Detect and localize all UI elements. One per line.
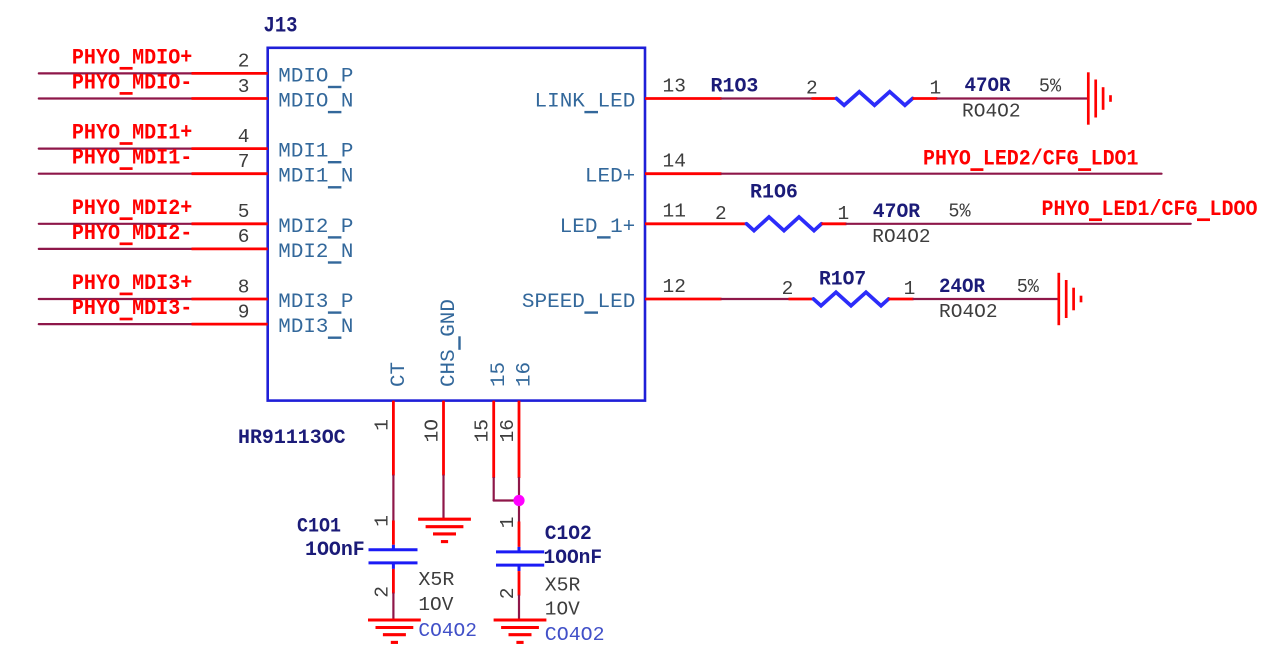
- svg-text:PHYO LED1/CFG LDOO: PHYO LED1/CFG LDOO: [1042, 197, 1258, 222]
- svg-text:1OV: 1OV: [545, 599, 580, 621]
- svg-text:1: 1: [929, 78, 941, 100]
- svg-text:24OR: 24OR: [939, 276, 986, 299]
- svg-text:PHYO MDIO+: PHYO MDIO+: [72, 45, 192, 70]
- svg-text:PHYO MDI2-: PHYO MDI2-: [72, 221, 192, 246]
- svg-text:2: 2: [497, 588, 519, 600]
- svg-text:7: 7: [238, 151, 250, 173]
- svg-text:PHYO MDI2+: PHYO MDI2+: [72, 196, 192, 221]
- svg-text:1: 1: [497, 517, 519, 529]
- svg-text:C1O1: C1O1: [297, 516, 341, 539]
- svg-text:15: 15: [472, 419, 494, 442]
- svg-text:1O: 1O: [422, 419, 444, 442]
- svg-text:47OR: 47OR: [965, 75, 1012, 98]
- svg-text:CT: CT: [388, 362, 411, 387]
- svg-text:4: 4: [238, 126, 250, 148]
- svg-text:3: 3: [238, 76, 250, 98]
- svg-text:MDI1 N: MDI1 N: [278, 166, 353, 189]
- svg-text:X5R: X5R: [545, 574, 581, 596]
- svg-text:2: 2: [715, 203, 727, 225]
- svg-text:CO4O2: CO4O2: [545, 624, 605, 646]
- svg-text:6: 6: [238, 226, 250, 248]
- svg-text:RO4O2: RO4O2: [939, 301, 998, 323]
- svg-text:SPEED LED: SPEED LED: [522, 291, 635, 314]
- svg-text:13: 13: [663, 75, 686, 97]
- svg-text:R1O7: R1O7: [819, 269, 866, 292]
- svg-text:9: 9: [238, 301, 250, 323]
- svg-text:5%: 5%: [1017, 276, 1039, 298]
- svg-text:LED+: LED+: [585, 166, 635, 189]
- svg-text:MDI1 P: MDI1 P: [278, 141, 353, 164]
- svg-text:1: 1: [371, 419, 393, 431]
- svg-text:14: 14: [663, 151, 686, 173]
- svg-text:PHYO MDI3+: PHYO MDI3+: [72, 271, 192, 296]
- svg-text:11: 11: [663, 201, 686, 223]
- svg-text:2: 2: [371, 586, 393, 598]
- svg-text:MDI2 N: MDI2 N: [278, 241, 353, 264]
- svg-text:X5R: X5R: [418, 569, 454, 591]
- svg-text:12: 12: [663, 276, 686, 298]
- svg-text:RO4O2: RO4O2: [872, 226, 930, 248]
- svg-text:8: 8: [238, 276, 250, 298]
- svg-text:MDI3 P: MDI3 P: [278, 291, 353, 314]
- svg-text:LED 1+: LED 1+: [560, 216, 636, 239]
- svg-text:R1O3: R1O3: [711, 75, 759, 98]
- svg-text:R1O6: R1O6: [750, 182, 798, 205]
- svg-text:MDI3 N: MDI3 N: [278, 316, 353, 339]
- svg-text:2: 2: [806, 78, 818, 100]
- svg-text:1OOnF: 1OOnF: [305, 539, 365, 562]
- svg-text:5%: 5%: [948, 201, 970, 223]
- svg-text:16: 16: [513, 362, 536, 387]
- svg-text:1: 1: [904, 278, 916, 300]
- svg-text:16: 16: [497, 419, 519, 442]
- svg-text:5: 5: [238, 201, 250, 223]
- svg-text:1: 1: [837, 203, 849, 225]
- svg-text:5%: 5%: [1039, 75, 1061, 97]
- svg-text:PHYO LED2/CFG LDO1: PHYO LED2/CFG LDO1: [923, 147, 1139, 172]
- svg-text:MDIO P: MDIO P: [278, 65, 353, 88]
- svg-text:1: 1: [371, 515, 393, 527]
- svg-text:MDI2 P: MDI2 P: [278, 216, 353, 239]
- svg-text:15: 15: [488, 362, 511, 387]
- svg-text:CO4O2: CO4O2: [418, 620, 477, 642]
- svg-text:2: 2: [782, 278, 794, 300]
- svg-text:1OOnF: 1OOnF: [544, 547, 603, 570]
- svg-text:J13: J13: [264, 14, 298, 39]
- svg-text:PHYO MDIO-: PHYO MDIO-: [72, 71, 192, 96]
- svg-text:2: 2: [238, 51, 250, 73]
- svg-text:CHS GND: CHS GND: [438, 299, 461, 387]
- svg-text:PHYO MDI1-: PHYO MDI1-: [72, 146, 192, 171]
- svg-text:C1O2: C1O2: [545, 523, 592, 546]
- svg-text:1OV: 1OV: [418, 594, 453, 616]
- svg-text:PHYO MDI3-: PHYO MDI3-: [72, 296, 192, 321]
- svg-text:RO4O2: RO4O2: [962, 100, 1021, 122]
- svg-text:MDIO N: MDIO N: [278, 91, 353, 114]
- svg-text:LINK LED: LINK LED: [535, 91, 636, 114]
- svg-text:47OR: 47OR: [873, 201, 921, 224]
- svg-text:PHYO MDI1+: PHYO MDI1+: [72, 121, 192, 146]
- svg-text:HR91113OC: HR91113OC: [238, 427, 346, 450]
